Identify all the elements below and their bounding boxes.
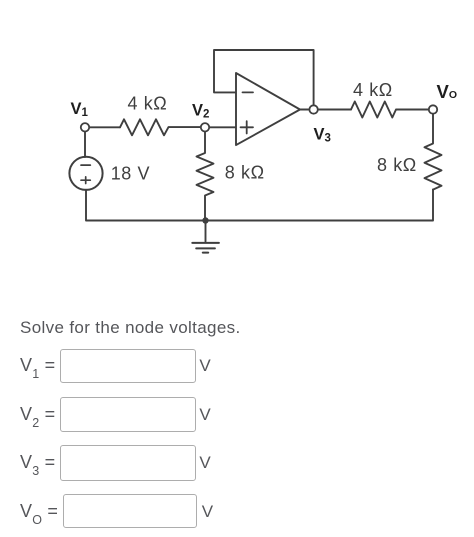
svg-text:V2: V2 bbox=[192, 102, 209, 121]
svg-text:V1: V1 bbox=[71, 100, 89, 119]
svg-text:8 kΩ: 8 kΩ bbox=[377, 155, 417, 175]
svg-text:4 kΩ: 4 kΩ bbox=[353, 80, 393, 100]
svg-text:VO: VO bbox=[437, 81, 458, 102]
svg-text:4 kΩ: 4 kΩ bbox=[128, 93, 168, 113]
svg-text:8 kΩ: 8 kΩ bbox=[225, 162, 265, 182]
svg-text:18 V: 18 V bbox=[111, 164, 150, 184]
svg-text:V3: V3 bbox=[314, 126, 331, 145]
